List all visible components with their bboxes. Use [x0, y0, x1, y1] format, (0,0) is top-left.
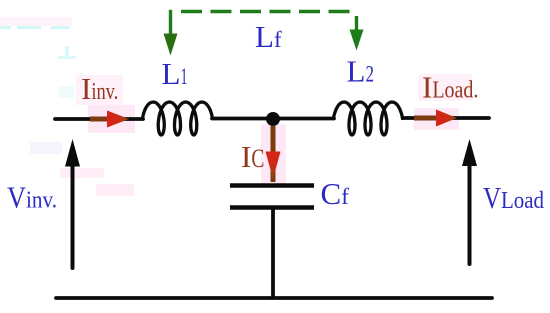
svg-text:IC: IC: [241, 139, 264, 174]
